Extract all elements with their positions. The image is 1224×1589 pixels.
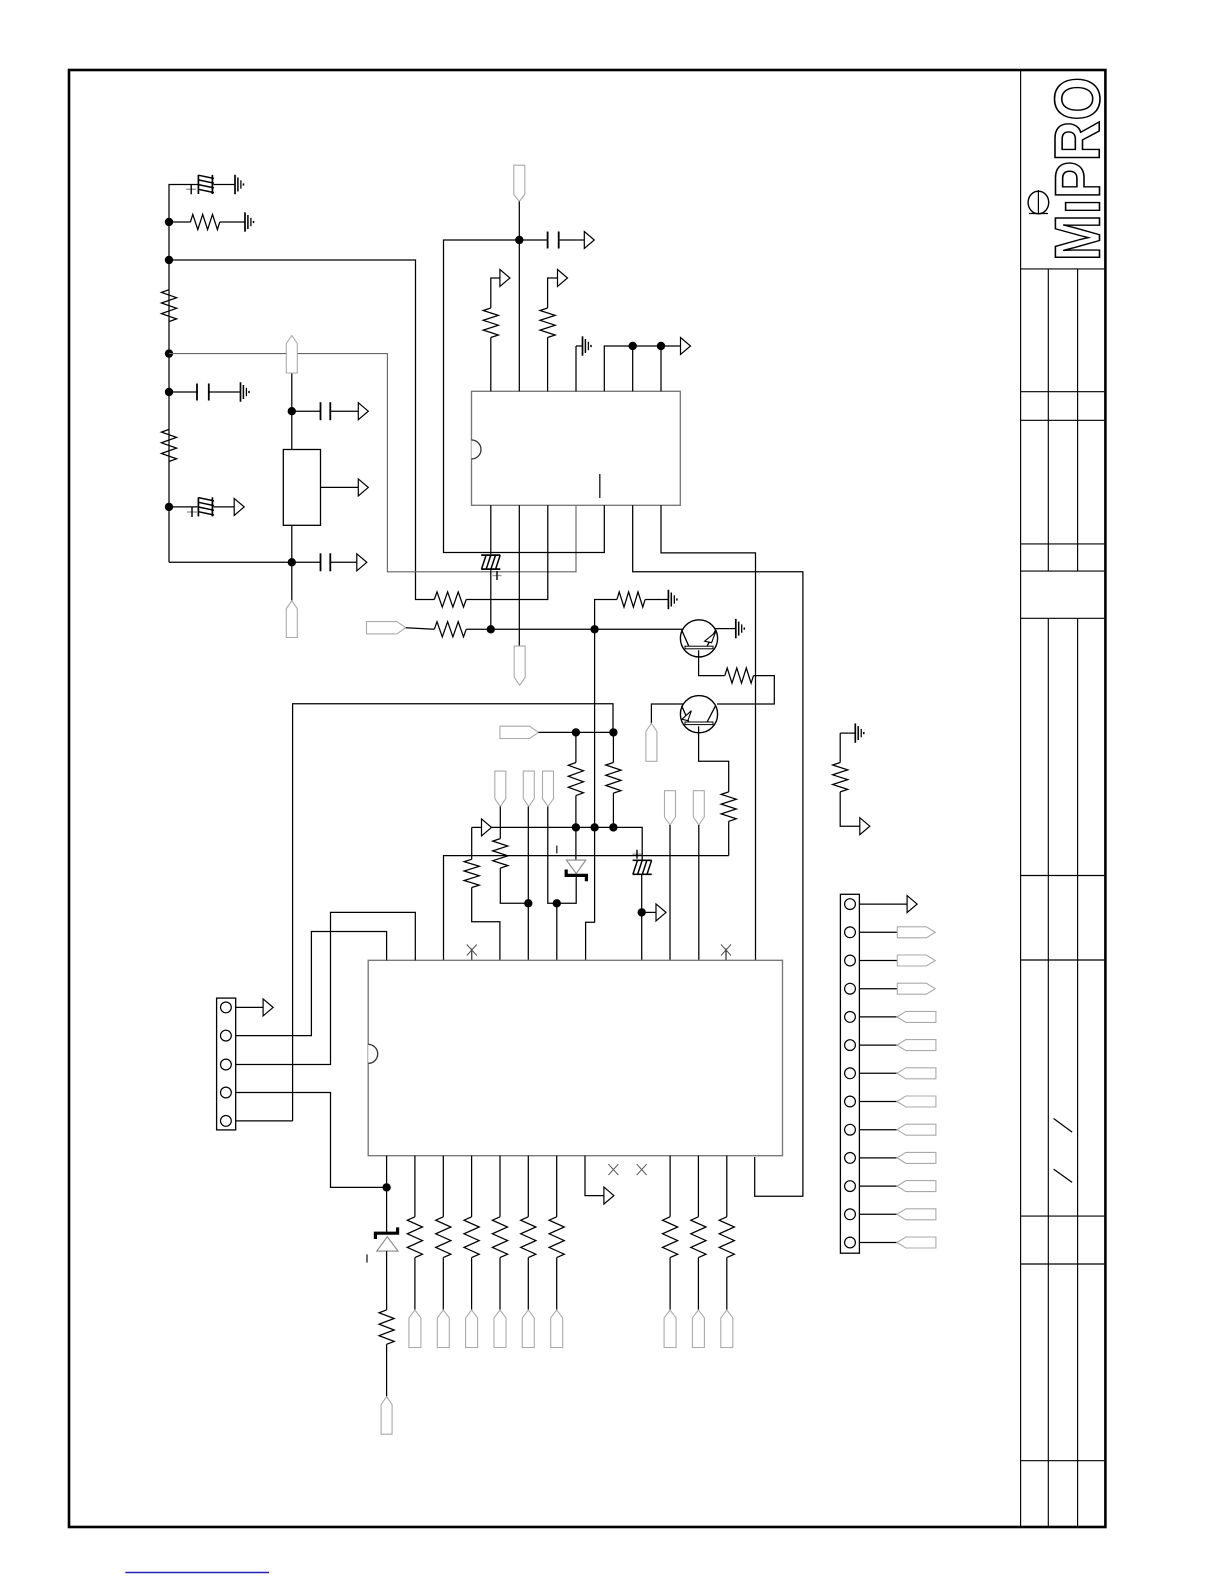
wire Q1 base down <box>594 629 596 827</box>
wire flag to junction <box>518 202 520 241</box>
net arrow <box>681 338 691 355</box>
net flag <box>897 1124 936 1135</box>
net flag <box>381 1397 392 1435</box>
wire junction loop to U1 <box>444 240 605 553</box>
net flag <box>286 601 297 638</box>
IC U1 <box>472 391 681 505</box>
wire C2 to ground <box>209 391 234 393</box>
wire C4 to arrow <box>330 410 358 412</box>
wire R12 to dot <box>612 793 614 827</box>
wire y855 tick <box>556 846 558 854</box>
C3 plus <box>187 511 197 513</box>
net arrow <box>558 270 568 287</box>
wire flag to U2 <box>669 825 671 960</box>
net arrow <box>358 403 368 420</box>
wire Q1base net to U2 <box>586 827 595 960</box>
junction <box>609 728 617 736</box>
resistor R15 <box>833 763 848 792</box>
junction <box>553 899 561 907</box>
wire J1 pin3 to U2 <box>236 912 416 1064</box>
capacitor C5 <box>320 553 322 571</box>
net flag <box>897 1068 936 1079</box>
no-connect X <box>471 949 473 961</box>
wire R11 to dot <box>575 796 577 828</box>
title block grid <box>1020 70 1022 1527</box>
wire J2 pin <box>859 960 897 962</box>
U1 pin wire + R4 + arrow <box>490 338 492 392</box>
no-connect X <box>637 1164 647 1175</box>
junction <box>638 908 646 916</box>
transistor Q1 <box>680 620 717 657</box>
net arrow inline <box>482 819 492 836</box>
IC U2 <box>368 960 782 1155</box>
junction <box>288 558 296 566</box>
junction <box>165 218 173 226</box>
junction <box>657 342 665 350</box>
wire U1 pin up <box>518 240 520 391</box>
net flag <box>664 1310 676 1348</box>
wire D2 to R16 <box>386 1251 388 1310</box>
wire U2 pin + R19 + flag <box>471 1156 473 1217</box>
transistor Q2 <box>680 696 717 733</box>
U1 pin to flag <box>518 505 520 646</box>
connector J1 <box>217 998 236 1130</box>
svg-text:MıPRO: MıPRO <box>1042 77 1114 261</box>
C8 plus <box>633 853 642 855</box>
D2 tick <box>366 1254 368 1262</box>
wire J1 pin2 to U2 <box>236 932 387 1036</box>
wire R16 to flag <box>386 1344 388 1396</box>
crystal X1 box <box>283 450 320 526</box>
C7 plus <box>493 575 502 577</box>
wire flag to R7 <box>406 628 435 630</box>
wire U2 pin + R25 + flag <box>726 1156 728 1217</box>
wire R10 down <box>728 821 730 855</box>
wire Rg top <box>839 733 841 762</box>
net flag <box>494 1310 506 1348</box>
wire C6 to arrow <box>559 239 585 241</box>
wire X1 right to arrow <box>321 486 359 488</box>
wire dot to arrow <box>642 911 656 913</box>
net flag <box>286 336 297 374</box>
wire row 827 left <box>472 826 482 828</box>
net flag <box>897 1096 936 1107</box>
net flag <box>897 1011 936 1022</box>
wire Q1 emitter to R9 <box>699 650 725 675</box>
net flag <box>409 1310 421 1348</box>
junction <box>572 823 580 831</box>
wire C3 to arrow <box>214 506 235 508</box>
wire R6 net <box>466 505 548 599</box>
net arrow <box>584 232 594 249</box>
wire J2 pin <box>859 1185 897 1187</box>
net flag <box>437 1310 449 1348</box>
net flag <box>665 791 676 825</box>
net flag <box>514 646 525 685</box>
ground G1 <box>229 184 236 186</box>
wire J2 pin <box>859 1101 897 1103</box>
junction <box>609 823 617 831</box>
capacitor C8 electrolytic <box>633 859 652 861</box>
wire C7 down <box>490 570 492 629</box>
net flag <box>897 955 935 966</box>
U1 pin wire + R5 + arrow <box>547 338 549 392</box>
net flag <box>897 927 935 938</box>
wire to C5 <box>292 561 321 563</box>
wire R13 chain <box>471 827 473 859</box>
resistor R14 <box>493 839 508 869</box>
net flag <box>522 1310 534 1348</box>
net flag <box>543 771 554 807</box>
wire to C4 <box>292 410 321 412</box>
net flag input <box>367 622 406 634</box>
resistor R2 <box>161 290 176 322</box>
no-connect X <box>725 949 727 961</box>
wire D1 to jog <box>557 877 576 903</box>
wire J2 pin <box>859 1157 897 1159</box>
resistor R13 <box>464 859 479 887</box>
no-connect X <box>608 1164 618 1175</box>
net arrow <box>234 498 244 515</box>
resistor R8 <box>617 592 645 607</box>
net flag mid <box>500 726 539 738</box>
wire J2 pin <box>859 1213 897 1215</box>
wire U2 pin + R24 + flag <box>697 1156 699 1217</box>
wire J2 pin <box>859 1044 897 1046</box>
resistor R11 <box>568 763 583 796</box>
ground G4 <box>576 345 583 347</box>
zener D1 <box>575 827 577 860</box>
zener D2 <box>375 1227 397 1239</box>
net arrow <box>656 904 666 921</box>
wire Rg to ground <box>840 732 849 734</box>
wire J2 pin <box>859 988 897 990</box>
wire J1 pin1 <box>236 1006 263 1008</box>
wire R11 chain <box>575 732 577 762</box>
capacitor C2 <box>196 384 198 401</box>
resistor R12 <box>606 763 621 794</box>
C1 plus <box>186 188 196 190</box>
wire U2 pin + R17 + flag <box>414 1156 416 1217</box>
wire J2 pin <box>859 1242 897 1244</box>
wire to R8 <box>595 600 617 630</box>
junction <box>487 625 495 633</box>
wire U2 pin + R22 + flag <box>556 1156 558 1217</box>
resistor R7 <box>434 622 466 637</box>
junction <box>629 342 637 350</box>
ground G5 <box>662 599 669 601</box>
wire R1 to ground <box>220 221 239 223</box>
net flag <box>693 791 704 825</box>
wire gray to U1 pin <box>169 354 576 572</box>
wire U1 pin <box>632 346 634 391</box>
resistor R16 <box>379 1310 394 1344</box>
wire net A <box>169 260 434 600</box>
net flag <box>551 1310 563 1348</box>
wire U1 pin to U2 <box>661 505 756 960</box>
connector J2 <box>840 894 859 1253</box>
resistor R10 <box>721 792 736 821</box>
wire J2 pin <box>859 931 897 933</box>
junction <box>382 1183 390 1191</box>
date slashes <box>1054 1119 1073 1133</box>
net flag <box>514 165 525 201</box>
wire J1 pin4 to U2 <box>236 1093 387 1188</box>
junction <box>515 236 523 244</box>
capacitor C7 electrolytic <box>481 554 500 556</box>
wire C5 to arrow <box>330 561 357 563</box>
junction <box>288 407 296 415</box>
wire J2 pin <box>859 1072 897 1074</box>
wire R8 to ground <box>645 599 662 601</box>
wire Q2 base left to flag <box>651 704 683 723</box>
wire to C3 <box>169 506 197 508</box>
ground G7 <box>849 732 856 734</box>
net arrow <box>907 896 917 913</box>
ground G2 <box>239 221 246 223</box>
capacitor C3 electrolytic <box>197 497 199 516</box>
wire U1 pin long right <box>633 505 803 1196</box>
net flag <box>897 1181 936 1192</box>
wire C8 down <box>641 875 643 960</box>
junction <box>572 728 580 736</box>
net arrow <box>860 818 870 835</box>
wire U2 pin to arrow <box>585 1156 604 1196</box>
wire R14 jog <box>500 868 528 903</box>
capacitor C6 <box>547 232 549 249</box>
U1 pin gnd wire <box>575 346 577 391</box>
junction <box>165 503 173 511</box>
U1 pin1 tick <box>599 474 601 498</box>
hyperlink underline <box>125 1572 269 1574</box>
net flag <box>466 1310 478 1348</box>
resistor R1 <box>190 214 219 229</box>
wire loop left <box>293 704 613 1121</box>
U1 pin to C7 <box>490 505 492 554</box>
net flag <box>692 1310 704 1348</box>
wire left chain vertical <box>169 185 198 563</box>
wire U2 pin + R23 + flag <box>669 1156 671 1217</box>
wire Q2 emitter to R10 <box>699 726 729 792</box>
net arrow <box>263 999 273 1016</box>
wire J2 pin <box>859 1129 897 1131</box>
ground G3 <box>234 391 241 393</box>
net arrow <box>358 479 368 496</box>
wire U2 pin + R18 + flag <box>442 1156 444 1217</box>
wire R15 to arrow <box>840 792 860 826</box>
wire U2 pin + R20 + flag <box>499 1156 501 1217</box>
junction <box>165 256 173 264</box>
net flag <box>897 1152 936 1163</box>
junction <box>590 625 598 633</box>
net arrow <box>604 1187 614 1204</box>
junction <box>524 899 532 907</box>
junction <box>165 388 173 396</box>
wire X1 bottom <box>291 525 293 600</box>
capacitor C4 <box>320 402 322 420</box>
wire J2 pin1 <box>859 903 907 905</box>
resistor R3 <box>161 429 176 461</box>
net arrow <box>357 554 367 571</box>
wire R7 to Q1 <box>466 628 683 630</box>
wire flag3 jog <box>548 807 557 961</box>
net flag <box>897 983 935 994</box>
net flag <box>897 1040 936 1051</box>
resistor R6 <box>434 592 466 607</box>
MIPRO logo <box>1042 77 1114 261</box>
wire bus y855 <box>444 856 729 961</box>
wire flag to node <box>291 373 293 450</box>
net flag <box>523 771 534 807</box>
wire U2 pin + R21 + flag <box>527 1156 529 1217</box>
wire flag to R14 <box>499 807 501 839</box>
border frame <box>69 70 1105 1527</box>
wire R9 to Q2 <box>717 676 774 704</box>
wire to C6 <box>519 239 547 241</box>
wire U1 pin <box>660 346 662 391</box>
net arrow <box>500 270 510 287</box>
net flag <box>646 723 657 761</box>
wire U2 pin to D2 <box>386 1156 388 1232</box>
wire row 827 <box>491 827 642 859</box>
wire C1 to ground <box>214 184 229 186</box>
wire R13 to U2 <box>472 888 500 961</box>
wire J1 pin5 loop <box>236 1120 293 1122</box>
resistor R9 <box>725 668 754 683</box>
junction <box>590 823 598 831</box>
capacitor C1 electrolytic <box>197 175 199 194</box>
wire J2 pin <box>859 1016 897 1018</box>
wire R12 chain <box>612 732 614 762</box>
net flag <box>721 1310 733 1348</box>
wire to R1 <box>169 221 190 223</box>
net flag <box>897 1237 936 1248</box>
wire flag to U2 <box>698 825 700 960</box>
junction <box>165 349 173 357</box>
wire Q1 collector gnd <box>715 628 730 630</box>
wire to C2 <box>169 391 197 393</box>
ground G6 <box>729 628 736 630</box>
net flag <box>897 1209 936 1220</box>
net flag <box>495 771 506 807</box>
wire top net <box>604 346 680 391</box>
wire flag2 down <box>527 807 529 961</box>
wire chain bottom <box>169 561 292 563</box>
wire flag row <box>539 731 614 733</box>
